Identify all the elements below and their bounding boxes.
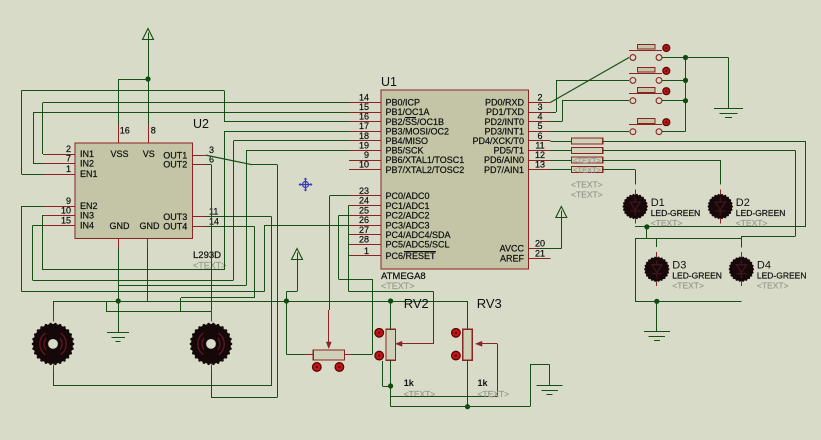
- resistor R2: [572, 147, 603, 153]
- motor M1: [32, 323, 75, 365]
- wire U2 GND2 down: [147, 248, 149, 301]
- U1 pin 17 PB3/MOSI/OC2: [349, 131, 381, 133]
- resistor R1: [572, 138, 603, 144]
- svg-text:1: 1: [364, 246, 369, 256]
- potentiometer RV1 body: [313, 350, 344, 360]
- wire D3 top: [656, 238, 658, 247]
- U2 pin 10 IN3: [44, 215, 75, 217]
- U2 pin 16 VSS: [118, 124, 120, 143]
- button SW3 actuator: [663, 88, 670, 95]
- svg-text:19: 19: [359, 140, 369, 150]
- ground G4 mid: [537, 385, 563, 387]
- wire PD0 diagonal to SW1: [551, 58, 630, 103]
- wire OUT3 to motor1 bottom: [206, 216, 272, 218]
- U1 pin 15 PB1/OC1A: [349, 112, 381, 114]
- U1 pin 14 PB0/ICP: [349, 102, 381, 104]
- svg-text:PD0/RXD: PD0/RXD: [485, 98, 525, 108]
- motor M2: [190, 323, 233, 365]
- wire PD1 to SW2: [551, 112, 557, 114]
- svg-text:1k: 1k: [478, 378, 489, 388]
- motor2 bottom pin: [211, 364, 213, 372]
- wire bottom rail to ground: [391, 406, 530, 408]
- svg-text:<TEXT>: <TEXT>: [757, 281, 789, 291]
- svg-text:15: 15: [61, 215, 71, 225]
- wire PD2 to SW3: [551, 121, 563, 123]
- svg-text:PB5/SCK: PB5/SCK: [386, 146, 424, 156]
- svg-text:17: 17: [359, 121, 369, 131]
- svg-text:25: 25: [359, 205, 369, 215]
- push button SW2: [629, 73, 662, 75]
- wire rail y238.3 D3 D4 top: [635, 238, 741, 240]
- wire RV3 bottom: [467, 360, 469, 406]
- svg-text:<TEXT>: <TEXT>: [573, 165, 602, 174]
- RV2 buttons: [375, 329, 384, 338]
- svg-text:13: 13: [535, 160, 545, 170]
- wire LED bottom rail y226.9: [635, 226, 806, 228]
- svg-text:PB6/XTAL1/TOSC1: PB6/XTAL1/TOSC1: [386, 155, 465, 165]
- origin marker: [299, 178, 313, 192]
- button SW4 actuator: [663, 119, 670, 126]
- svg-text:LED-GREEN: LED-GREEN: [757, 271, 807, 281]
- svg-text:<TEXT>: <TEXT>: [573, 156, 602, 165]
- potentiometer RV3 body: [463, 329, 473, 360]
- U1 pin 5 PD3/INT1: [529, 131, 551, 133]
- power symbol P1 (VS/VSS supply): [143, 29, 154, 40]
- junction RV3 bottom: [465, 404, 470, 409]
- svg-text:26: 26: [359, 215, 369, 225]
- U2 pin 1 EN1: [44, 174, 75, 176]
- svg-text:<TEXT>: <TEXT>: [571, 180, 603, 190]
- junction RV2 top: [388, 298, 393, 303]
- button SW1 actuator: [663, 45, 670, 52]
- U2 pin 3 OUT1: [192, 155, 205, 157]
- svg-text:<TEXT>: <TEXT>: [651, 218, 683, 228]
- junction RV2 bottom: [388, 383, 393, 388]
- svg-text:<TEXT>: <TEXT>: [571, 190, 603, 200]
- wire power P1 stem: [148, 40, 150, 80]
- overbar RESET: [404, 251, 436, 253]
- wire PD4 to R1: [551, 141, 572, 143]
- svg-text:PD6/AIN0: PD6/AIN0: [484, 155, 524, 165]
- wire R2 to D4 top: [603, 150, 796, 152]
- wire RV1 right: [352, 354, 372, 356]
- wire VS branch: [148, 79, 150, 125]
- wire RV2 bottom: [390, 360, 392, 406]
- svg-text:18: 18: [359, 131, 369, 141]
- RV1 right pin: [345, 354, 353, 356]
- svg-text:LED-GREEN: LED-GREEN: [651, 208, 701, 218]
- U1 pin 27 PC4/ADC4/SDA: [349, 234, 381, 236]
- junction bus SW3: [683, 98, 688, 103]
- svg-text:PB2/SS/OC1B: PB2/SS/OC1B: [386, 117, 445, 127]
- U2 pin 11 OUT3: [192, 216, 205, 218]
- wire left drop to bottom rail: [635, 238, 637, 301]
- U2 pin 9 EN2: [44, 206, 75, 208]
- overbar SS: [405, 117, 416, 119]
- svg-text:2: 2: [537, 92, 542, 102]
- junction D1 bottom: [644, 224, 649, 229]
- svg-text:AREF: AREF: [500, 254, 525, 264]
- svg-text:16: 16: [120, 126, 130, 136]
- U2 pin 15 IN4: [44, 225, 75, 227]
- wire bus to ground: [686, 57, 729, 59]
- RV1 terminal buttons: [313, 363, 322, 372]
- wire U2 GND1 down: [118, 248, 120, 301]
- wire rail VCC/GND y301: [53, 301, 467, 303]
- svg-text:VS: VS: [143, 149, 155, 159]
- motor1 top pin: [53, 310, 55, 322]
- svg-text:PB1/OC1A: PB1/OC1A: [386, 107, 430, 117]
- wire VSS branch: [118, 79, 148, 81]
- U1 pin 23 PC0/ADC0: [349, 195, 381, 197]
- wire OUT2 to motor2 top: [206, 164, 211, 166]
- svg-text:<TEXT>: <TEXT>: [672, 281, 704, 291]
- svg-text:RV2: RV2: [404, 296, 429, 311]
- svg-text:3: 3: [537, 102, 542, 112]
- wire LED lower rail y301.3: [635, 301, 741, 303]
- wire PB5 rail: [118, 285, 246, 287]
- svg-text:LED-GREEN: LED-GREEN: [672, 271, 722, 281]
- svg-text:20: 20: [535, 238, 545, 248]
- button SW2 actuator: [663, 67, 670, 74]
- svg-text:PD7/AIN1: PD7/AIN1: [484, 165, 524, 175]
- junction bus SW1: [683, 55, 688, 60]
- motor1 bottom pin: [53, 364, 55, 372]
- svg-text:PC0/ADC0: PC0/ADC0: [386, 191, 430, 201]
- U1 pin 2 PD0/RXD: [529, 102, 551, 104]
- svg-text:EN2: EN2: [80, 201, 98, 211]
- svg-text:9: 9: [364, 150, 369, 160]
- U1 pin 19 PB5/SCK: [349, 150, 381, 152]
- svg-text:6: 6: [537, 131, 542, 141]
- svg-text:<TEXT>: <TEXT>: [736, 218, 768, 228]
- wire motor2 bottom: [211, 372, 213, 398]
- junction bus SW2: [683, 78, 688, 83]
- U1 pin 25 PC2/ADC2: [349, 215, 381, 217]
- U1 pin 9 PB6/XTAL1/TOSC1: [349, 160, 381, 162]
- svg-text:RV3: RV3: [477, 296, 502, 311]
- svg-text:<TEXT>: <TEXT>: [478, 389, 510, 399]
- svg-text:15: 15: [359, 102, 369, 112]
- svg-text:PD3/INT1: PD3/INT1: [484, 126, 524, 136]
- wire PC3 to EN2 rail: [264, 225, 266, 291]
- LED D4 LED-GREEN: [741, 252, 743, 259]
- svg-text:<TEXT>: <TEXT>: [381, 281, 415, 291]
- svg-text:12: 12: [535, 150, 545, 160]
- svg-text:L293D: L293D: [193, 250, 221, 261]
- svg-text:GND: GND: [140, 221, 161, 231]
- U1 pin 12 PD6/AIN0: [529, 160, 551, 162]
- svg-text:7: 7: [66, 154, 71, 164]
- svg-text:PC2/ADC2: PC2/ADC2: [386, 211, 430, 221]
- svg-text:28: 28: [359, 235, 369, 245]
- svg-text:1: 1: [66, 164, 71, 174]
- RV1 left pin: [305, 354, 313, 356]
- wire R3 to D2 top: [603, 160, 721, 162]
- wire EN2 rail: [21, 206, 43, 208]
- push button SW3: [629, 93, 662, 95]
- RV3 wiper arrow: [480, 343, 497, 345]
- wire R1 right rail: [603, 141, 806, 143]
- wire RV1 left: [286, 301, 288, 355]
- wire junction down: [646, 227, 648, 238]
- svg-text:IN2: IN2: [80, 159, 94, 169]
- svg-text:PB0/ICP: PB0/ICP: [386, 98, 421, 108]
- U1 pin 4 PD2/INT0: [529, 121, 551, 123]
- push button SW4: [629, 124, 662, 126]
- push button SW1: [629, 50, 662, 52]
- svg-text:PB3/MOSI/OC2: PB3/MOSI/OC2: [386, 126, 450, 136]
- U2 pin GND 2: [147, 239, 149, 248]
- svg-text:U2: U2: [193, 117, 209, 131]
- RV3 buttons: [452, 329, 461, 338]
- motor driver U2 L293D: [75, 143, 193, 239]
- resistor R3: [572, 157, 603, 163]
- U1 pin 3 PD1/TXD: [529, 112, 551, 114]
- svg-text:U1: U1: [381, 75, 397, 89]
- LED D3 LED-GREEN: [656, 252, 658, 259]
- wire ground stem LEDs: [656, 301, 658, 331]
- svg-text:11: 11: [209, 207, 218, 217]
- U1 pin 1 PC6/RESET: [349, 255, 381, 257]
- svg-text:OUT2: OUT2: [163, 160, 187, 170]
- svg-text:1k: 1k: [404, 378, 415, 388]
- wire PD5 to R2: [551, 150, 572, 152]
- svg-text:LED-GREEN: LED-GREEN: [736, 208, 786, 218]
- U2 pin 14 OUT4: [192, 226, 205, 228]
- LED D2 LED-GREEN: [720, 190, 722, 197]
- svg-text:24: 24: [359, 196, 369, 206]
- wire motor1 bottom: [53, 372, 55, 386]
- svg-text:PD4/XCK/T0: PD4/XCK/T0: [472, 136, 524, 146]
- wire buttons right bus: [662, 57, 686, 59]
- svg-text:OUT4: OUT4: [163, 222, 187, 232]
- wire small jog: [382, 386, 390, 388]
- wire OUT1 diagonal to motor2 bottom: [206, 155, 252, 165]
- wire OUT4 stepped: [206, 226, 255, 228]
- junction P3 rail: [284, 298, 289, 303]
- U2 pin 7 IN2: [44, 163, 75, 165]
- svg-text:PC4/ADC4/SDA: PC4/ADC4/SDA: [386, 230, 451, 240]
- svg-text:21: 21: [535, 248, 545, 258]
- svg-text:4: 4: [537, 112, 542, 122]
- svg-text:<TEXT>: <TEXT>: [404, 389, 436, 399]
- junction GND rail: [116, 298, 121, 303]
- wire PC2 to RV1 right: [339, 215, 349, 217]
- svg-text:PD5/T1: PD5/T1: [493, 146, 524, 156]
- junction D3 bottom: [654, 299, 659, 304]
- svg-text:9: 9: [66, 196, 71, 206]
- U1 pin 11 PD5/T1: [529, 150, 551, 152]
- wire PD6 to R3: [551, 160, 572, 162]
- wire IN2 to PB1: [33, 163, 43, 165]
- wire PC1 to RV2 wiper: [347, 205, 350, 207]
- svg-text:OUT3: OUT3: [163, 212, 187, 222]
- svg-text:IN1: IN1: [80, 149, 94, 159]
- U1 pin 20 AVCC: [529, 248, 539, 250]
- svg-text:10: 10: [359, 160, 369, 170]
- svg-text:16: 16: [359, 112, 369, 122]
- wire ground stem under U2: [118, 301, 120, 332]
- U1 pin 13 PD7/AIN1: [529, 169, 551, 171]
- ground G1 under U2: [107, 332, 129, 334]
- RV1 wiper arrow: [328, 310, 330, 344]
- resistor R4: [572, 166, 603, 172]
- U1 pin 6 PD4/XCK/T0: [529, 140, 551, 142]
- ground G2 buttons: [714, 108, 743, 110]
- wire PC0 to RV1 wiper: [329, 195, 349, 197]
- U1 pin 24 PC1/ADC1: [349, 205, 381, 207]
- wire RV2 top lead: [390, 301, 392, 329]
- svg-text:PC1/ADC1: PC1/ADC1: [386, 201, 430, 211]
- U2 pin GND 1: [118, 239, 120, 248]
- svg-text:PD2/INT0: PD2/INT0: [484, 117, 524, 127]
- svg-text:PD1/TXD: PD1/TXD: [486, 107, 525, 117]
- svg-text:GND: GND: [110, 221, 131, 231]
- svg-text:VSS: VSS: [110, 149, 128, 159]
- svg-text:14: 14: [209, 217, 219, 227]
- svg-text:11: 11: [535, 140, 544, 150]
- motor2 top pin: [211, 310, 213, 322]
- svg-text:IN3: IN3: [80, 211, 94, 221]
- wire P3 jog: [297, 260, 299, 291]
- U1 pin 10 PB7/XTAL2/TOSC2: [349, 169, 381, 171]
- wire RV3 top lead: [467, 301, 469, 329]
- power symbol P3 (RV rail): [292, 249, 303, 260]
- LED D1 LED-GREEN: [635, 190, 637, 197]
- svg-text:PC3/ADC3: PC3/ADC3: [386, 220, 430, 230]
- U1 pin 28 PC5/ADC5/SCL: [349, 244, 381, 246]
- wire IN1 to PB0: [42, 154, 45, 156]
- svg-text:EN1: EN1: [80, 169, 98, 179]
- svg-text:PB7/XTAL2/TOSC2: PB7/XTAL2/TOSC2: [386, 165, 465, 175]
- svg-text:PB4/MISO: PB4/MISO: [386, 136, 429, 146]
- U1 pin 18 PB4/MISO: [349, 140, 381, 142]
- U1 pin 26 PC3/ADC3: [349, 225, 381, 227]
- ground G3 LEDs: [644, 331, 670, 333]
- wire PD7 to R4: [551, 169, 572, 171]
- U1 pin 21 AREF: [529, 258, 551, 260]
- microcontroller U1 ATMEGA8: [381, 90, 529, 269]
- wire R4 to D1 top: [603, 169, 636, 171]
- wire AVCC to power: [551, 248, 562, 250]
- U2 pin 6 OUT2: [192, 164, 205, 166]
- power symbol P2 (AVCC): [556, 207, 567, 218]
- svg-text:10: 10: [61, 206, 71, 216]
- wire RV3 wiper down: [497, 344, 499, 397]
- wire EN1 to PB2: [21, 174, 43, 176]
- wire motor1 top: [53, 301, 55, 310]
- wire IN3 to PB3: [42, 215, 44, 217]
- wire IN4 to PB4: [33, 225, 44, 227]
- svg-text:14: 14: [359, 92, 369, 102]
- svg-text:27: 27: [359, 225, 369, 235]
- svg-text:IN4: IN4: [80, 221, 94, 231]
- svg-text:8: 8: [151, 126, 156, 136]
- svg-text:5: 5: [537, 121, 542, 131]
- U2 pin 2 IN1: [44, 154, 75, 156]
- U1 pin 16 PB2/SS/OC1B: [349, 121, 381, 123]
- wire PD3 to SW4: [551, 131, 630, 133]
- svg-text:PC6/RESET: PC6/RESET: [386, 251, 437, 261]
- svg-text:PC5/ADC5/SCL: PC5/ADC5/SCL: [386, 240, 450, 250]
- potentiometer RV2 body: [386, 329, 396, 360]
- svg-text:2: 2: [66, 144, 71, 154]
- U2 pin 8 VS: [148, 124, 150, 143]
- svg-text:23: 23: [359, 186, 369, 196]
- svg-text:AVCC: AVCC: [500, 244, 525, 254]
- RV2 wiper arrow: [400, 343, 434, 345]
- junction node VS/VSS: [145, 76, 150, 81]
